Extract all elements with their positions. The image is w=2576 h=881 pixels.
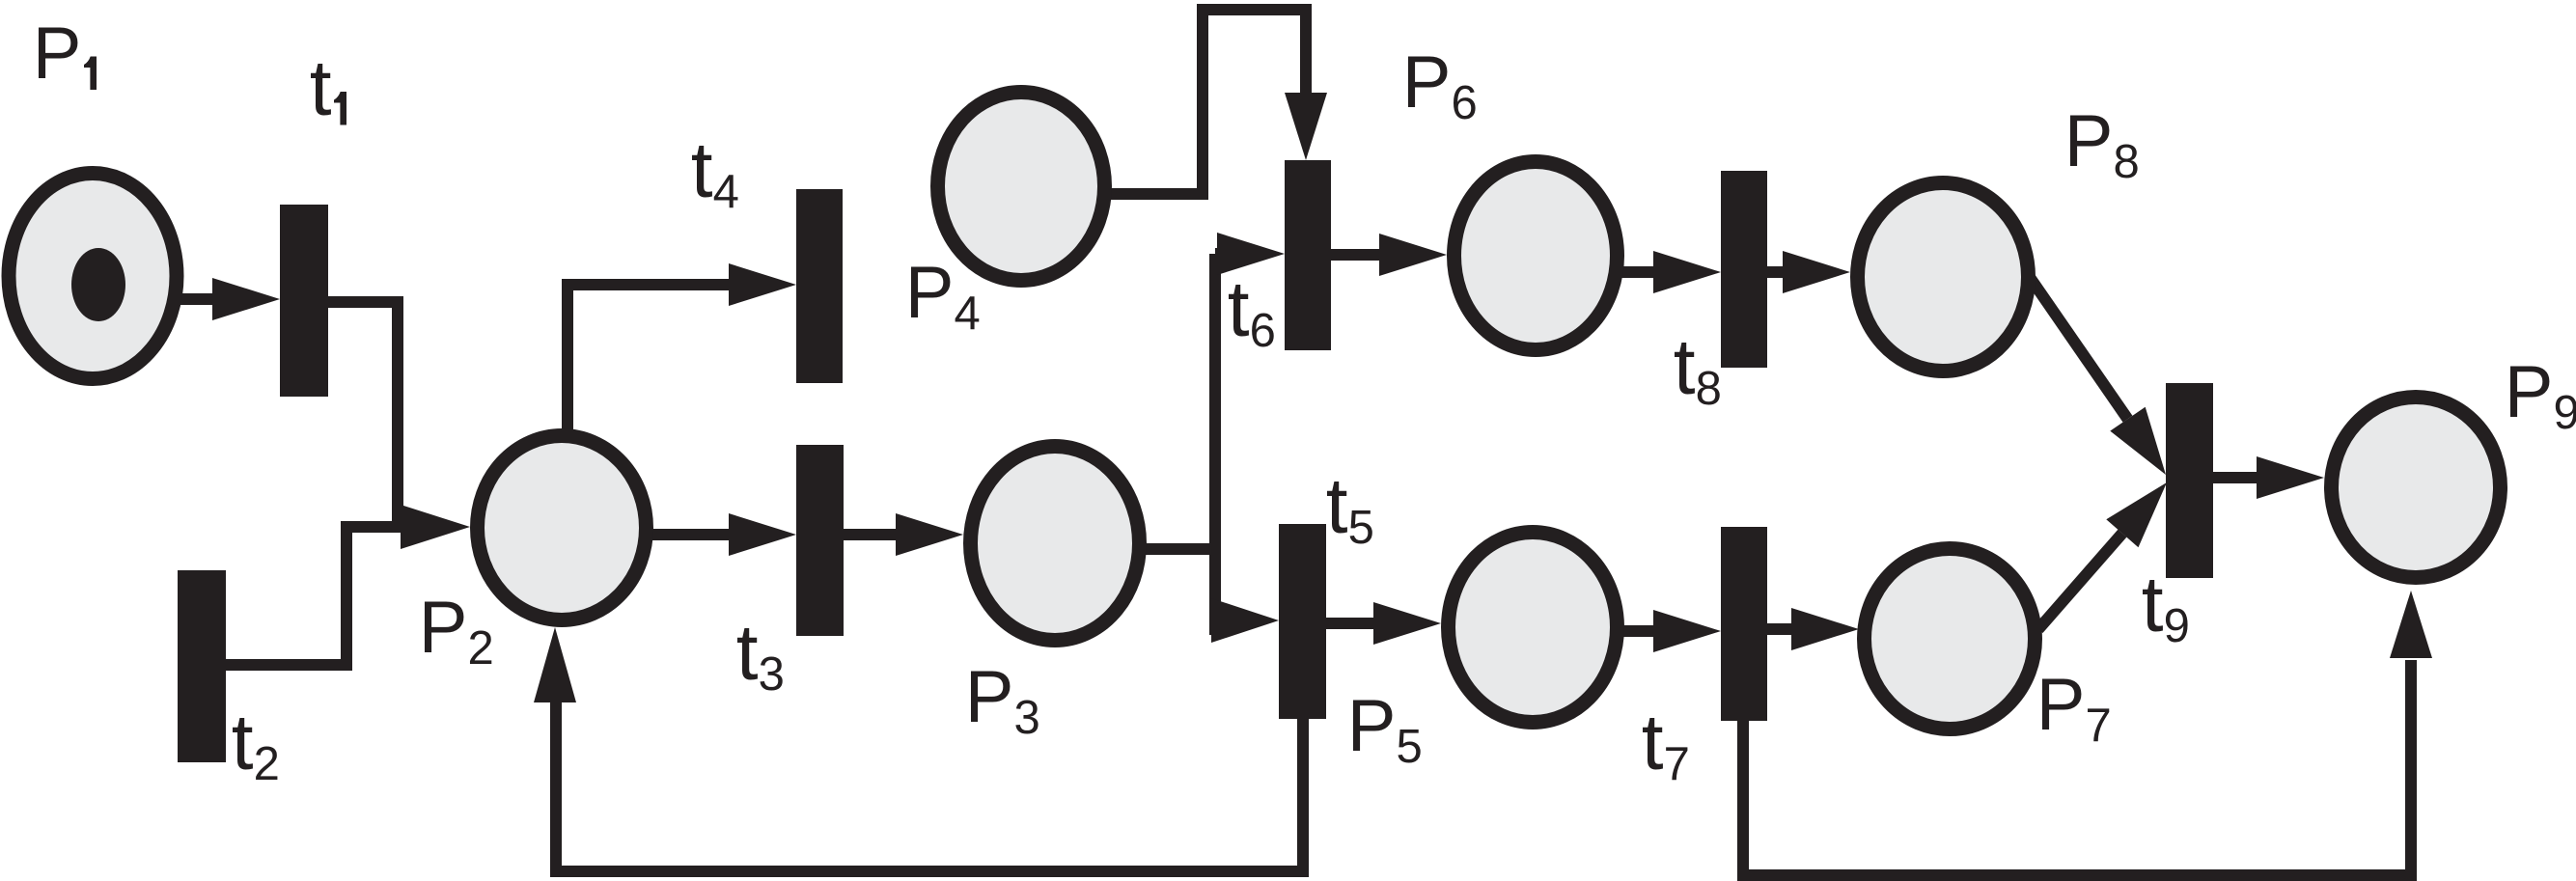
- svg-text:t: t: [310, 44, 332, 132]
- svg-text:P: P: [33, 13, 82, 95]
